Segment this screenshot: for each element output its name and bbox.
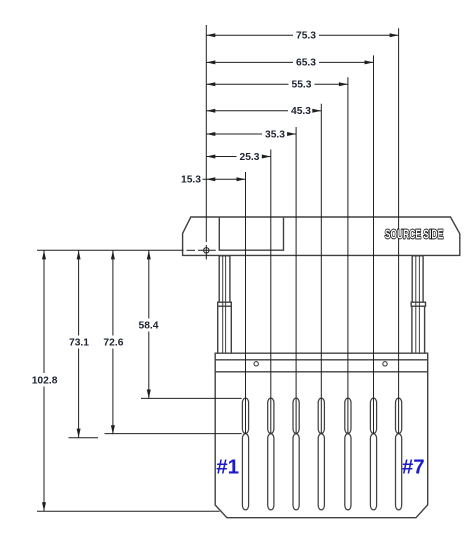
ext line slot6	[373, 55, 375, 433]
svg-text:65.3: 65.3	[296, 58, 316, 69]
body band line 2	[215, 371, 428, 373]
arrows 25.3	[206, 155, 215, 159]
slot 3 lower	[293, 434, 299, 510]
right post lower section	[412, 306, 425, 353]
dimension linework	[37, 25, 399, 511]
arrows 58.4	[147, 250, 151, 259]
top cap plate	[183, 217, 460, 255]
main body block	[215, 353, 428, 518]
arrows 75.3	[206, 33, 215, 37]
slot 6 upper	[370, 398, 376, 433]
svg-text:75.3: 75.3	[296, 31, 316, 42]
slot 4 lower	[318, 434, 324, 510]
slot 7 lower	[396, 434, 402, 510]
part body group	[183, 217, 460, 518]
slot 2 upper	[268, 398, 274, 433]
svg-text:45.3: 45.3	[291, 106, 311, 117]
body hole left	[254, 362, 258, 366]
arrows 15.3	[206, 177, 215, 181]
svg-text:SOURCE SIDE: SOURCE SIDE	[385, 228, 443, 242]
body hole right	[383, 362, 387, 366]
ext line slot7	[398, 28, 400, 433]
arrows 72.6	[111, 250, 115, 259]
dim line 65.3	[206, 61, 293, 63]
dimension texts	[32, 31, 317, 387]
left post lower section	[218, 306, 232, 353]
arrows 55.3	[206, 82, 215, 86]
dim line 15.3	[203, 178, 246, 180]
cap inner recess rectangle	[219, 218, 283, 251]
extension 58.4 bottom	[141, 397, 242, 399]
dim line 55.3	[206, 83, 288, 85]
svg-text:102.8: 102.8	[32, 375, 58, 386]
svg-text:35.3: 35.3	[265, 129, 285, 140]
left dim line 72.6	[112, 250, 114, 335]
datum target circle	[204, 248, 209, 253]
ext line slot1	[245, 172, 247, 434]
datum vertical extension line	[205, 25, 207, 242]
slot 1 upper	[242, 398, 248, 433]
slot 5 upper	[345, 398, 351, 433]
left post collar	[218, 302, 232, 306]
left dim line 58.4	[148, 250, 150, 318]
svg-text:58.4: 58.4	[138, 321, 158, 332]
svg-text:25.3: 25.3	[239, 152, 259, 163]
dim line 45.3	[206, 110, 288, 112]
right post inner lines	[416, 256, 420, 353]
slot 2 lower	[268, 434, 274, 510]
label SOURCE SIDE	[385, 228, 443, 242]
body band line 1	[215, 359, 428, 361]
arrowheads	[42, 33, 399, 511]
svg-text:73.1: 73.1	[69, 338, 89, 349]
svg-text:#7: #7	[402, 456, 425, 479]
dim line 75.3	[206, 34, 293, 36]
arrows 102.8	[42, 250, 46, 259]
svg-text:55.3: 55.3	[291, 80, 311, 91]
slot 7 upper	[396, 398, 402, 433]
left dim line 102.8	[43, 250, 45, 373]
extension 102.8 bottom	[37, 510, 220, 512]
arrows 35.3	[206, 132, 215, 136]
ext line slot2	[270, 150, 272, 434]
extension 72.6 bottom	[105, 433, 242, 435]
ext line slot5	[347, 77, 349, 433]
svg-text:15.3: 15.3	[181, 175, 201, 186]
slot 3 upper	[293, 398, 299, 433]
left dim line 73.1	[78, 250, 80, 335]
svg-text:72.6: 72.6	[103, 338, 123, 349]
slot 5 lower	[345, 434, 351, 510]
left post inner lines	[223, 256, 226, 353]
dim line 25.3	[206, 156, 236, 158]
arrows 73.1	[77, 250, 81, 259]
left post upper section	[219, 256, 230, 304]
slot 1 lower	[242, 434, 248, 510]
extension 73.1 bottom	[69, 437, 99, 439]
slot 4 upper	[318, 398, 324, 433]
slots	[242, 398, 401, 510]
ext line slot3	[295, 127, 297, 434]
right post collar	[411, 302, 425, 306]
arrows 65.3	[206, 60, 215, 64]
datum centerline horizontal	[37, 249, 184, 251]
slot 6 lower	[370, 434, 376, 510]
svg-text:#1: #1	[216, 456, 239, 479]
ext line slot4	[320, 104, 322, 434]
right post upper section	[412, 256, 423, 304]
dim line 35.3	[206, 133, 262, 135]
arrows 45.3	[206, 109, 215, 113]
